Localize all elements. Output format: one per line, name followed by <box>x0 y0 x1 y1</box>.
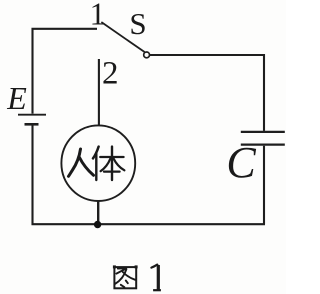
wire pivot to top-right corner <box>150 55 264 131</box>
wire circle to junction <box>97 202 99 225</box>
svg-text:C: C <box>226 138 256 187</box>
battery E short plate <box>25 123 39 126</box>
caption tu (图) <box>113 265 138 288</box>
wire bottom <box>32 223 266 225</box>
svg-text:2: 2 <box>102 56 119 92</box>
wire top (corner to contact 1) <box>33 29 98 114</box>
junction node dot <box>94 221 101 228</box>
wire left lower <box>31 125 33 225</box>
svg-text:E: E <box>6 80 27 116</box>
wire right lower <box>263 146 265 225</box>
battery E long plate <box>18 114 46 116</box>
capacitor C top plate <box>241 131 285 133</box>
svg-text:1: 1 <box>90 0 106 31</box>
switch S pivot <box>144 52 150 58</box>
human body circle <box>61 125 135 201</box>
caption figure number 1 <box>151 265 161 291</box>
svg-text:S: S <box>129 6 146 41</box>
switch S blade <box>102 23 144 52</box>
label ti (体) <box>93 147 124 180</box>
label ren (人) <box>69 149 94 176</box>
capacitor C bottom plate <box>241 144 285 146</box>
contact 2 wire <box>98 59 100 125</box>
